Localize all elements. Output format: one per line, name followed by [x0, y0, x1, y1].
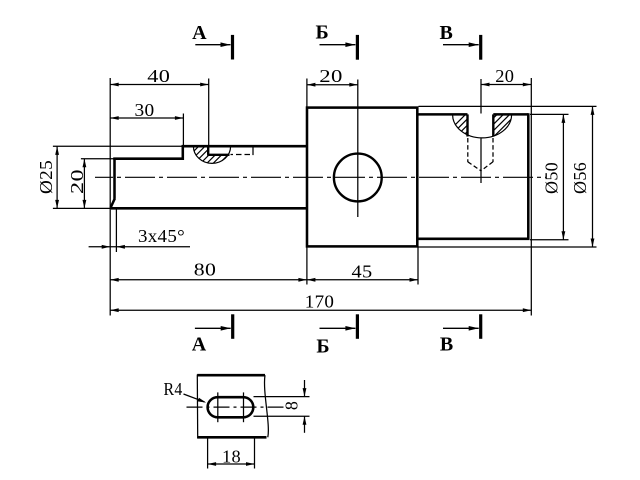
svg-text:30: 30 — [135, 100, 155, 120]
svg-text:А: А — [192, 334, 207, 356]
svg-text:170: 170 — [305, 291, 335, 311]
svg-text:20: 20 — [67, 169, 87, 194]
svg-text:8: 8 — [282, 401, 302, 410]
svg-text:В: В — [440, 22, 453, 44]
svg-text:Ø25: Ø25 — [36, 160, 56, 194]
svg-text:Ø50: Ø50 — [541, 162, 561, 194]
svg-text:В: В — [440, 334, 453, 356]
svg-text:Ø56: Ø56 — [570, 162, 590, 194]
svg-text:20: 20 — [495, 66, 514, 86]
svg-text:3x45°: 3x45° — [138, 226, 185, 246]
svg-text:Б: Б — [315, 22, 328, 44]
svg-text:20: 20 — [319, 66, 343, 86]
svg-text:45: 45 — [352, 262, 373, 282]
svg-text:А: А — [192, 22, 207, 44]
svg-text:80: 80 — [194, 260, 217, 280]
svg-text:R4: R4 — [164, 379, 183, 399]
svg-text:18: 18 — [222, 447, 241, 467]
svg-text:40: 40 — [147, 66, 170, 86]
svg-text:Б: Б — [316, 336, 329, 358]
